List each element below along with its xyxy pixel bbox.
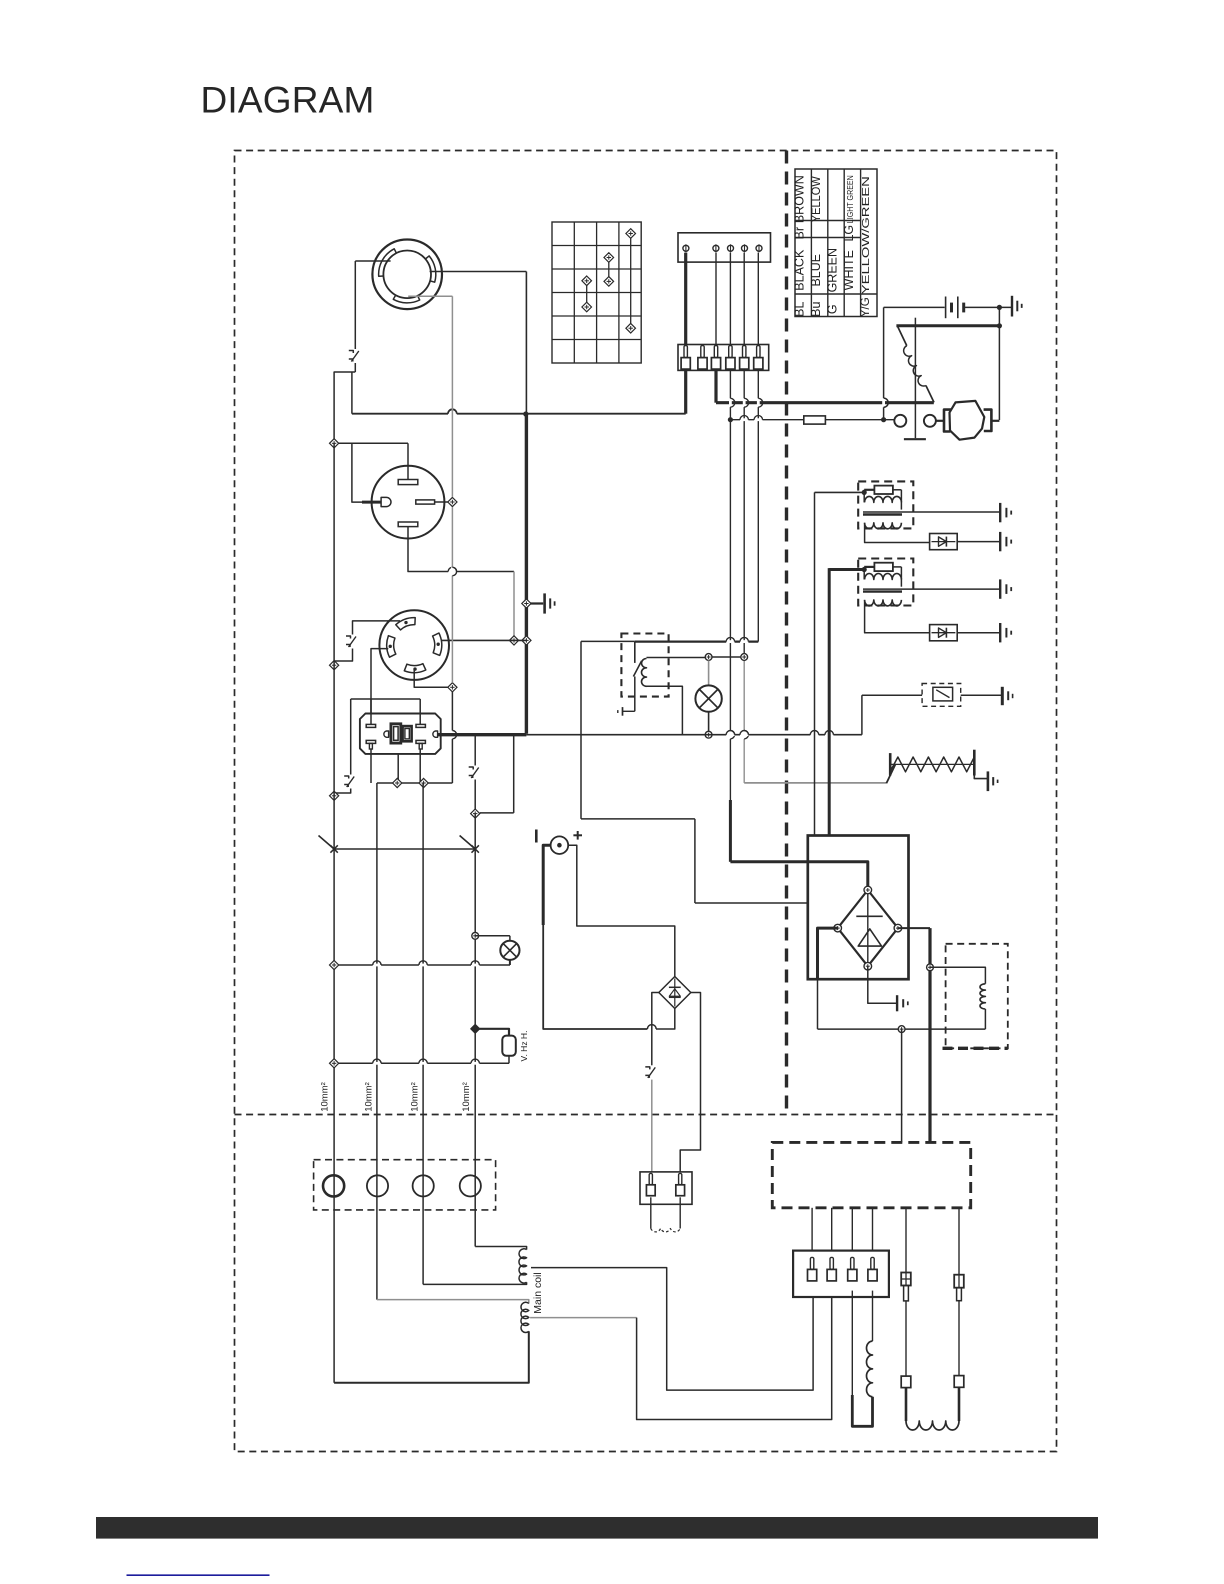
node diamond y640 a	[509, 636, 518, 645]
module wire d	[872, 1208, 874, 1251]
circuit breaker CB-c	[344, 775, 358, 789]
wire bridge bottom to ground	[868, 966, 897, 1003]
AVR box	[808, 836, 909, 980]
wire battery right lead	[964, 306, 1012, 308]
module pin 3	[851, 1257, 854, 1269]
wire e mid	[905, 1301, 907, 1376]
wire row y1029	[818, 1028, 986, 1030]
hop x452 over y571	[451, 567, 454, 575]
wire row y783	[377, 782, 453, 784]
junction dot v1	[728, 417, 733, 422]
T1 secondary out	[865, 523, 930, 543]
node diamond y640 b	[522, 636, 531, 645]
fuse F1	[804, 416, 826, 424]
relay ground GND2	[623, 710, 635, 712]
wire fuse to contact	[825, 419, 894, 421]
thick U to charge coil	[852, 1395, 872, 1426]
wire breaker-a bottom	[354, 363, 356, 372]
wire bridge2 right leg	[680, 993, 700, 1172]
main coil 2	[521, 1302, 529, 1332]
bus wire 4 (10mm)	[474, 814, 476, 1247]
wire row y443	[334, 442, 408, 444]
spark block pin 1	[649, 1173, 652, 1184]
wire J1 right pin	[430, 271, 527, 273]
CB1 pin	[757, 346, 760, 358]
node diamond bus1-y1063	[330, 1059, 339, 1068]
bridge diode bar	[856, 915, 882, 917]
minus sign	[535, 830, 538, 843]
wire coil top lead	[647, 657, 706, 659]
CB1 pin	[701, 346, 704, 358]
wire D1 to ground	[957, 541, 999, 543]
wire TB1-1 to CB1-1 (thick)	[684, 253, 687, 346]
hop y734 x730	[726, 733, 734, 736]
indicator lamp LP2	[695, 685, 721, 711]
battery BT1	[945, 297, 947, 319]
ground GND8	[999, 579, 1001, 598]
hop y571 over x452	[448, 570, 456, 573]
junction dot battery drop	[881, 417, 886, 422]
diode D2	[930, 625, 958, 641]
hop y1063 bus4	[471, 1062, 479, 1065]
subcoil dashed bottom thick	[943, 1047, 1008, 1050]
svg-text:GREEN: GREEN	[825, 248, 839, 292]
small bridge diamond	[659, 977, 691, 1009]
panel pilot lamp LP1	[500, 941, 519, 960]
rheostat left bar	[889, 753, 892, 775]
wire lamp2 bottom	[708, 712, 710, 732]
receptacle J2 (RV style)	[372, 466, 445, 539]
CB1 pin	[729, 346, 732, 358]
DC terminal	[551, 836, 569, 854]
module pin 2	[830, 1257, 833, 1269]
hop y419 v2	[740, 418, 748, 421]
starter motor M	[950, 401, 985, 440]
wire y640 receptacle3 right	[441, 639, 526, 641]
hop y1063 bus3	[419, 1062, 427, 1065]
svg-text:BLUE: BLUE	[809, 254, 823, 287]
CT ring 4	[460, 1175, 481, 1196]
wire breaker branch riser	[513, 734, 515, 813]
wire CB1-1 drop (thick)	[684, 369, 687, 413]
node circle lamp2 top	[705, 654, 712, 661]
circuit breaker CB-b	[346, 635, 360, 649]
main breaker blade left	[319, 836, 335, 850]
svg-text:Y/G: Y/G	[860, 297, 872, 317]
svg-text:LG: LG	[842, 225, 856, 242]
kill switch blade	[936, 690, 949, 698]
kill switch dashed box	[922, 684, 961, 707]
inline connector e	[901, 1376, 911, 1388]
wire row y734 thin	[526, 734, 862, 736]
wire x901 to module	[901, 1029, 903, 1142]
hop y641 v1	[726, 640, 734, 643]
junction dot	[523, 411, 528, 416]
wire lamp to bus row	[509, 960, 511, 965]
wire T1 feed drop x814	[814, 492, 816, 835]
module wire e	[905, 1208, 907, 1273]
TB1 screw terminal	[713, 245, 719, 251]
wire to v2 node	[712, 656, 741, 658]
wire down to J2 D-pin	[352, 443, 381, 502]
wire kill switch right	[961, 694, 1001, 696]
svg-text:G: G	[825, 304, 839, 314]
wire f mid	[958, 1301, 960, 1376]
relay coil	[642, 659, 647, 687]
node diamond x526-y603	[522, 599, 531, 608]
bus row y1063	[334, 1062, 509, 1064]
relay switch	[634, 642, 636, 663]
wire spark pin2 down	[679, 1197, 681, 1228]
wire battery left lead	[884, 306, 945, 308]
node diamond y783 b	[419, 778, 428, 787]
thick wire x930	[928, 928, 931, 1142]
wire GFCI left drop	[350, 699, 352, 778]
svg-text:Br: Br	[793, 227, 807, 240]
hop y734 x814	[810, 733, 818, 736]
footer blue underline	[127, 1574, 270, 1576]
plus sign	[573, 834, 582, 836]
TB1 screw terminal	[728, 245, 734, 251]
rheostat zigzag	[890, 757, 974, 772]
bus row y965	[334, 964, 510, 966]
wire DC- path	[543, 845, 550, 925]
node diamond y783 a	[393, 778, 402, 787]
vertical wire v2 x744	[743, 369, 745, 653]
matrix terminal diamond	[626, 323, 636, 333]
wire to meter	[475, 1029, 509, 1036]
wire coil bottom lead	[647, 686, 683, 734]
horizontal dashed divider	[235, 1114, 1057, 1116]
main breaker blade right	[460, 836, 476, 850]
svg-text:10mm²: 10mm²	[461, 1082, 472, 1112]
spark exciter coil (dashed)	[651, 1229, 680, 1232]
TB1 screw terminal	[683, 245, 689, 251]
T2 secondary out	[865, 600, 930, 633]
circuit breaker CB-d	[468, 766, 482, 780]
wire kill switch left	[862, 694, 922, 696]
wire spark pin1 down	[650, 1197, 652, 1228]
svg-text:WHITE: WHITE	[842, 250, 856, 290]
vertical wire x526 upper	[525, 272, 527, 415]
svg-text:Main coil: Main coil	[532, 1272, 544, 1313]
wire J2 bottom	[408, 527, 514, 572]
CT ring 2	[367, 1175, 388, 1196]
hop y641 v2	[740, 640, 748, 643]
wire lamp2 drop	[708, 660, 710, 685]
wire D2 to ground	[957, 632, 999, 634]
matrix terminal diamond	[604, 277, 614, 287]
bridge rectifier diamond	[838, 890, 898, 966]
wire DC+ path	[568, 845, 675, 976]
node circle y734	[705, 731, 712, 738]
ground GND9	[999, 623, 1001, 642]
thick wire solenoid top	[896, 324, 999, 327]
hop y965 bus4	[471, 964, 479, 967]
matrix terminal diamond	[604, 253, 614, 263]
CB1 pin	[714, 346, 717, 358]
hop v1 y734	[729, 731, 732, 739]
wire J1 bottom pin	[408, 295, 452, 297]
CT dashed box	[314, 1160, 496, 1210]
junction meter tap	[471, 1024, 480, 1033]
wire J2 D-pin thick	[362, 501, 381, 504]
node circle x930	[927, 964, 934, 971]
bridge terminal right	[894, 924, 902, 932]
small bridge diode	[674, 979, 676, 1007]
solenoid plunger	[914, 318, 916, 439]
svg-text:DIAGRAM: DIAGRAM	[201, 80, 375, 121]
wire x514 down	[513, 572, 515, 641]
hop y965 bus3	[419, 964, 427, 967]
solenoid contact b	[924, 415, 936, 427]
wire relay feed vert x581	[580, 641, 582, 819]
GFCI duplex outlet	[360, 714, 441, 754]
wire bus2 to coil2 top	[377, 1300, 529, 1304]
node diamond bus1-y795	[330, 791, 339, 800]
matrix terminal diamond	[582, 276, 592, 286]
node diamond x475-y813	[471, 809, 480, 818]
matrix link col2	[586, 281, 588, 307]
wire motor to ground branch	[991, 420, 999, 422]
node circle y1029	[898, 1026, 905, 1033]
TB1 screw terminal	[742, 245, 748, 251]
node diamond bus1-y965	[330, 960, 339, 969]
hop y1063 bus2	[373, 1062, 381, 1065]
module wire c	[851, 1208, 853, 1251]
wire v2 to rheostat	[744, 782, 886, 784]
wire f lower thick	[958, 1387, 961, 1421]
engine module dashed box	[772, 1142, 970, 1207]
wire y1029 to bridge2 bottom	[656, 1009, 675, 1030]
module wire f thick	[958, 1208, 960, 1275]
matrix link col3	[608, 258, 610, 282]
inline connector f	[954, 1376, 964, 1388]
battery ground GND5	[1011, 296, 1013, 317]
svg-text:BLACK: BLACK	[793, 249, 807, 291]
node diamond x452-y687	[448, 683, 457, 692]
circuit breaker CB-a	[348, 349, 362, 363]
subcoil dashed box	[946, 944, 1008, 1049]
hop v1 y402	[729, 398, 732, 407]
wire J1-left down	[354, 261, 356, 349]
diode D1	[930, 534, 958, 550]
module pin 1	[810, 1257, 813, 1269]
spark block pin 2	[679, 1173, 682, 1184]
wire x861 kill switch riser	[861, 695, 863, 735]
wire J3 bottom pin	[414, 668, 448, 687]
module pin 4	[871, 1257, 874, 1269]
svg-text:10mm²: 10mm²	[364, 1082, 375, 1112]
sub coil winding	[980, 984, 985, 1009]
svg-text:BL: BL	[793, 302, 807, 317]
thick wire GFCI right	[437, 733, 526, 736]
wire J1 left pin	[355, 260, 390, 262]
hop v2 y734	[743, 731, 746, 739]
node circle lamp tap	[472, 932, 479, 939]
CT ring 3	[413, 1175, 434, 1196]
meter V.Hz.H	[502, 1036, 516, 1056]
wire bridge left ext	[817, 979, 819, 1029]
wire y419 fuse row	[730, 419, 803, 421]
wire TB1-5 to CB1-6	[757, 253, 759, 346]
junction dot ground branch	[997, 305, 1002, 310]
hop v3 y402	[757, 398, 760, 407]
hop v2 y402	[743, 398, 746, 407]
matrix terminal diamond	[626, 229, 636, 239]
wire relay switch down	[634, 677, 636, 712]
wire ground branch down	[998, 307, 1000, 420]
bus wire 3 (10mm)	[422, 783, 424, 1284]
terminal block TB1	[678, 233, 771, 262]
CT ring 1	[323, 1175, 344, 1196]
bus wire 1 (10mm)	[333, 443, 335, 1383]
main coil 1	[519, 1249, 527, 1283]
starter solenoid coil diagonal	[897, 326, 907, 346]
outer dashed border	[235, 151, 1057, 1452]
ignition transformer T1	[858, 481, 913, 528]
node diamond x452-y502	[448, 497, 457, 506]
connection matrix table	[552, 222, 641, 363]
spark connector block	[640, 1172, 692, 1204]
wire bridge right to x930	[898, 927, 930, 929]
wire to chassis ground	[526, 602, 543, 604]
wire breaker-b to bus1	[334, 649, 352, 666]
rheostat axis	[890, 763, 974, 765]
wire pin3 down	[851, 1291, 853, 1395]
svg-text:BROWN: BROWN	[793, 175, 807, 223]
node diamond bus1-y665	[330, 661, 339, 670]
hop y965 bus2	[373, 964, 381, 967]
hop riser over y402	[882, 398, 885, 407]
wire battery riser	[883, 307, 885, 419]
ground GND10	[896, 995, 898, 1011]
wire y818	[581, 818, 695, 820]
svg-text:10mm²: 10mm²	[320, 1082, 331, 1112]
wire to J2 top	[407, 443, 409, 479]
connector block CB1	[678, 345, 769, 371]
wire coil2 bottom to bus1	[334, 1331, 529, 1383]
main breaker row y849	[334, 848, 475, 850]
hop y734 x744	[740, 733, 748, 736]
wire J3 top pin	[353, 621, 401, 638]
wire breaker-d stub	[474, 736, 476, 769]
hop y414 over x452	[448, 412, 457, 415]
kill switch ground GND4	[1001, 687, 1004, 705]
wire row y414	[352, 413, 686, 415]
thick dashed vertical divider	[785, 151, 788, 1115]
wire coil1 output	[531, 1268, 813, 1391]
wire J2 right pin	[435, 501, 453, 503]
thick wire bridge left leg	[818, 928, 838, 979]
wire e lower thick	[905, 1388, 908, 1421]
wire breaker-e to sparkblock	[651, 1080, 653, 1172]
wire GFCI top feed	[351, 698, 421, 700]
charge coil	[867, 1341, 873, 1397]
receptacle J3 twist-lock	[379, 610, 449, 680]
wire jog to bus1	[334, 372, 355, 443]
wire TB1-3 to CB1-4	[729, 253, 731, 346]
wire color legend table grid	[795, 169, 877, 317]
wire meter to bus row	[508, 1056, 510, 1064]
wire rheostat diagonal	[886, 764, 895, 783]
ground GND6	[999, 503, 1001, 522]
recoil coupling scallops	[906, 1421, 959, 1430]
wire breaker branch right	[480, 812, 514, 814]
wire T2 feed drop x829 thick	[828, 568, 831, 835]
footer bar	[96, 1517, 1098, 1539]
wire bus4 to coil1 top	[475, 1247, 526, 1250]
wire bus3 to coil1 bottom	[423, 1282, 526, 1284]
bus wire 2 (10mm)	[376, 783, 378, 1300]
svg-text:YELLOW/GREEN: YELLOW/GREEN	[860, 176, 872, 294]
bullet connector e	[901, 1273, 911, 1286]
wire breaker-c to bus1	[334, 789, 351, 796]
wire relay contact row	[635, 640, 759, 642]
thick wire y402 to starter	[716, 401, 934, 404]
T1 HT output	[902, 511, 999, 513]
module wire a	[811, 1208, 813, 1251]
wire x694 down	[694, 819, 696, 903]
wire contact to motor	[936, 420, 944, 422]
node diamond bus1-y443	[330, 439, 339, 448]
wire rheostat to ground	[974, 771, 987, 779]
thick wire to bridge top	[730, 862, 867, 888]
wire TB1-4 to CB1-5	[743, 253, 745, 346]
wire to panel lamp	[475, 935, 510, 937]
wire subcoil bottom	[984, 1009, 986, 1029]
bullet connector f	[954, 1275, 964, 1288]
kill switch body	[933, 687, 953, 701]
vertical wire x452	[451, 296, 453, 497]
ignition transformer T2	[858, 559, 913, 606]
solenoid contact a	[894, 415, 906, 427]
receptacle J1 twist-lock	[372, 239, 442, 309]
wire y903 to AVR	[695, 902, 808, 904]
wire bridge2 left leg	[652, 993, 659, 1066]
bridge terminal bottom	[864, 962, 872, 970]
svg-text:10mm²: 10mm²	[410, 1082, 421, 1112]
CB1 pin	[684, 346, 687, 358]
hop y734 x829	[825, 733, 833, 736]
chassis ground GND1	[543, 593, 546, 613]
svg-text:Bu: Bu	[809, 302, 823, 317]
wire J3 left pin	[371, 649, 388, 714]
wire breaker-d down	[474, 780, 476, 814]
relay dashed box	[621, 634, 668, 697]
wire coil2 output	[530, 1317, 637, 1319]
svg-text:LIGHT GREEN: LIGHT GREEN	[845, 175, 855, 223]
node circle v2	[741, 654, 748, 661]
wire breaker-a to line	[351, 372, 353, 414]
vertical wire v3 x758	[757, 369, 759, 641]
matrix link col4	[630, 234, 632, 329]
T2 HT output	[902, 588, 999, 590]
wire TB1-2 to CB1-3	[715, 253, 717, 346]
junction dot solenoid top	[997, 323, 1002, 328]
matrix terminal diamond	[582, 302, 592, 312]
hop y419 v3	[754, 418, 762, 421]
CB1 pin	[743, 346, 746, 358]
bridge diode triangle	[858, 929, 881, 946]
wire to subcoil top	[930, 967, 985, 984]
svg-text:V. Hz H.: V. Hz H.	[519, 1031, 529, 1062]
hop y1029 x651	[647, 1028, 656, 1031]
module connector block	[793, 1251, 889, 1297]
bridge terminal top	[864, 886, 872, 894]
rheostat ground GND3	[987, 771, 990, 791]
wire pin4 to charge coil	[872, 1291, 874, 1342]
